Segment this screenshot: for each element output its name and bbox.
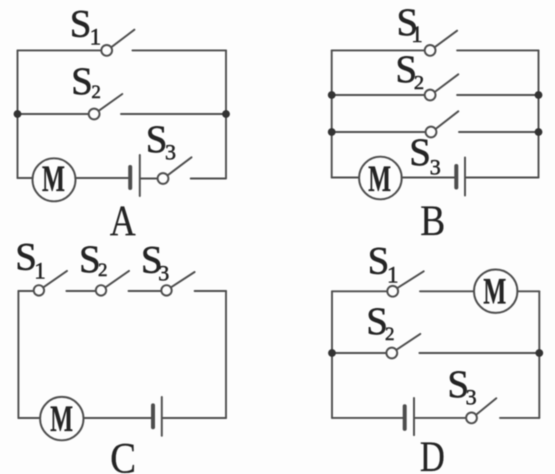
svg-text:3: 3: [466, 385, 477, 410]
svg-text:2: 2: [91, 82, 101, 103]
svg-text:3: 3: [165, 140, 176, 165]
svg-text:3: 3: [430, 155, 441, 180]
svg-text:D: D: [420, 434, 445, 474]
svg-text:S: S: [71, 60, 93, 103]
svg-text:1: 1: [411, 22, 423, 47]
svg-text:A: A: [110, 198, 136, 245]
svg-text:S: S: [409, 131, 431, 174]
svg-text:C: C: [110, 435, 136, 474]
svg-text:B: B: [420, 198, 445, 245]
svg-text:M: M: [368, 159, 391, 200]
svg-text:M: M: [42, 159, 65, 200]
svg-text:S: S: [70, 3, 92, 46]
svg-text:M: M: [50, 399, 73, 440]
svg-text:2: 2: [385, 324, 395, 345]
svg-text:2: 2: [98, 260, 108, 281]
svg-text:1: 1: [34, 258, 46, 283]
svg-text:3: 3: [158, 260, 169, 285]
svg-text:1: 1: [387, 262, 399, 287]
svg-text:M: M: [483, 271, 506, 312]
svg-text:2: 2: [414, 72, 424, 94]
svg-text:1: 1: [90, 24, 102, 49]
